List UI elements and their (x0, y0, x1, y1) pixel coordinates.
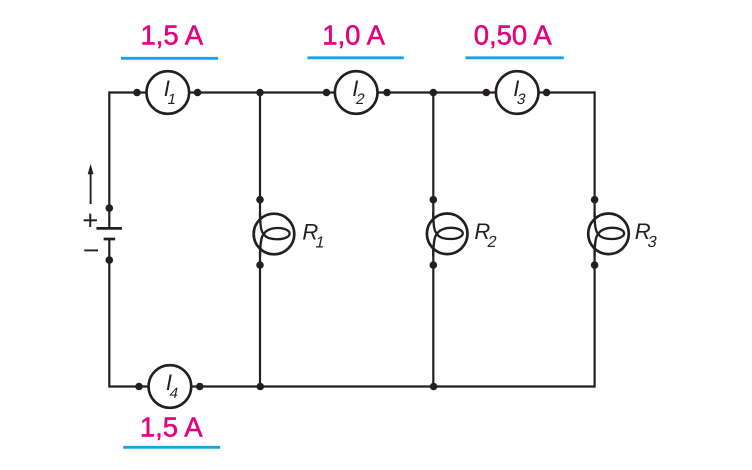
junction right of I4 (196, 383, 204, 391)
resistor R2 (427, 212, 468, 256)
svg-text:1,5 A: 1,5 A (140, 412, 203, 443)
junction above battery (106, 204, 114, 212)
junction right of I2 (383, 89, 391, 97)
junction dots bottom rail (135, 383, 437, 391)
junction right of I3 (543, 89, 551, 97)
ammeter I1 (147, 71, 190, 114)
minus sign (84, 249, 98, 251)
junction left of I1 (133, 89, 141, 97)
junction left of I2 (323, 89, 331, 97)
junction node top of branch 1 (256, 89, 264, 97)
junction below R2 (430, 261, 438, 269)
junction right of I1 (194, 89, 202, 97)
junction below R1 (256, 261, 264, 269)
junction left of I4 (135, 383, 143, 391)
underline for 1,5 A (bottom) (123, 446, 220, 449)
battery B1 plus plate (96, 227, 122, 230)
junction dots top rail (133, 89, 550, 97)
junction dots battery wire (106, 204, 114, 264)
junction dots resistor branches (256, 196, 598, 269)
ammeter I4 (149, 365, 192, 408)
junction above R2 (430, 196, 438, 204)
ammeter I3 (496, 71, 539, 114)
wire left side lower (from battery - plate) (108, 239, 110, 388)
resistor R3 (588, 212, 629, 256)
junction above R1 (256, 196, 264, 204)
wire branch 1 (259, 93, 261, 387)
svg-text:0,50 A: 0,50 A (474, 20, 553, 51)
junction above R3 (591, 196, 599, 204)
junction below battery (106, 256, 114, 264)
junction left of I3 (483, 89, 491, 97)
battery B1 minus plate (104, 238, 116, 241)
underline for 0,50 A (466, 56, 564, 59)
underline for 1,5 A (top) (121, 57, 218, 60)
wire right side branch 3 (593, 91, 595, 387)
svg-text:1,5 A: 1,5 A (140, 20, 203, 51)
plus sign (84, 214, 97, 227)
wire left side upper (to battery + plate) (108, 91, 110, 228)
underline for 1,0 A (307, 56, 403, 59)
junction node bottom of branch 2 (430, 383, 438, 391)
resistor R1 (254, 213, 295, 257)
wire bottom rail (109, 385, 594, 387)
junction below R3 (591, 261, 599, 269)
junction node bottom of branch 1 (257, 383, 265, 391)
current direction arrow (88, 164, 94, 204)
svg-text:1,0 A: 1,0 A (322, 20, 385, 51)
wire top rail (109, 91, 594, 93)
ammeter I2 (335, 71, 378, 114)
junction node top of branch 2 (430, 89, 438, 97)
wire branch 2 (432, 93, 434, 387)
